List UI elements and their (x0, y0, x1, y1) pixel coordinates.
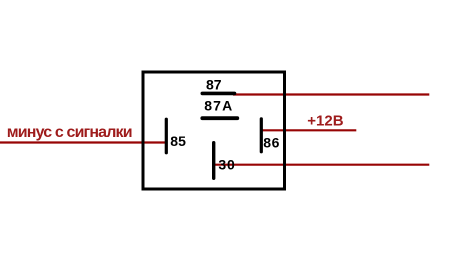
wire: alarm minus line to pin 85 (0, 141, 166, 143)
svg-text:минус с сигналки: минус с сигналки (7, 124, 132, 141)
pin 87A contact bar (202, 116, 237, 120)
pin 30 contact bar (212, 143, 215, 179)
svg-text:87A: 87A (204, 98, 233, 114)
svg-text:+12В: +12В (307, 113, 343, 130)
pin 86 coil bar (260, 119, 263, 152)
svg-text:86: 86 (263, 135, 280, 151)
svg-text:85: 85 (170, 133, 186, 149)
svg-text:87: 87 (206, 77, 222, 93)
wire: pin 30 line to right edge (214, 164, 429, 166)
relay body K1 (143, 72, 285, 189)
pin 87 contact bar (202, 92, 234, 96)
svg-text:30: 30 (218, 156, 235, 172)
pin 85 coil bar (165, 119, 168, 153)
wire: +12V supply to pin 86 (261, 129, 356, 131)
wire: pin 87 output to right edge (233, 93, 429, 95)
